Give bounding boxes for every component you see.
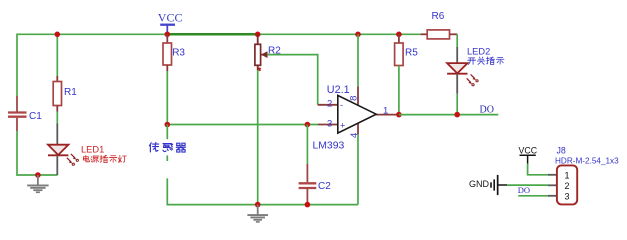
label LM393 [313,141,345,152]
wire R6 to LED2 [456,34,458,47]
svg-text:R6: R6 [432,11,445,22]
wire LED2 to DO rail [456,94,458,115]
pin number 2 [327,98,332,109]
label LED2 [467,46,490,56]
label 开关指示 [468,57,504,65]
svg-text:LED1: LED1 [81,145,104,155]
ground GND1 [27,175,48,193]
ground GND2 [247,205,268,223]
label U2.1 [327,84,350,96]
svg-text:1: 1 [383,105,388,116]
junction pin8 rail [355,32,361,38]
LED D2 pin cathode [456,74,458,94]
op-amp U2.1 LM393 [338,95,376,133]
junction R2 top [255,32,261,38]
wire VCC2 to J8 pin1 [528,164,548,175]
wire R3 bottom to node [166,71,168,125]
LED D1 pin cathode [56,155,58,175]
svg-text:LED2: LED2 [467,46,490,56]
wire DO rail [399,114,498,116]
capacitor C2 [299,164,332,205]
wire top rail left [17,34,167,96]
svg-text:C2: C2 [318,181,331,192]
op-amp U2.1 pin 4 stub [357,123,359,135]
svg-text:8: 8 [349,96,360,101]
svg-text:+: + [340,121,345,131]
svg-text:1: 1 [565,170,570,180]
svg-text:HDR-M-2.54_1x3: HDR-M-2.54_1x3 [555,157,619,166]
junction C2 bottom [305,202,311,208]
svg-text:J8: J8 [557,146,566,156]
label 电源指示灯 [83,155,126,162]
wire R1 from rail [56,34,58,76]
wire pin4 down [357,135,359,205]
net label DO bottom [518,185,530,195]
wire top rail right [258,33,421,35]
wire top rail dark segment VCC to R2 [167,33,257,36]
svg-text:LM393: LM393 [313,141,345,152]
svg-text:GND: GND [469,179,490,189]
svg-text:-: - [340,100,343,110]
resistor R5 [395,34,419,65]
LED D2 pin anode [456,47,458,63]
op-amp U2.1 pin 2 stub [318,104,338,106]
svg-text:DO: DO [518,185,530,195]
LED LED2 [447,63,478,86]
resistor R3 [163,34,185,71]
resistor R6 [421,11,458,39]
junction node C1/LED1/GND [35,172,41,178]
svg-text:C1: C1 [29,111,42,122]
label LED1 [81,145,104,155]
junction R5 top [396,32,402,38]
pin number 1 [383,105,388,116]
op-amp U2.1 pin 1 stub [376,114,399,116]
wire R5 bottom to output [398,66,400,115]
power GND symbol [469,175,507,195]
wire C2 top [306,125,308,165]
potentiometer R2 [255,34,281,71]
op-amp U2.1 pin 8 stub [357,87,359,107]
svg-text:2: 2 [565,181,570,191]
pin number 3 [327,118,332,129]
svg-text:VCC: VCC [519,146,538,156]
svg-text:2: 2 [327,98,332,109]
LED D1 pin anode [56,124,58,146]
wire DO to J8 pin3 [518,195,548,197]
svg-text:U2.1: U2.1 [327,84,350,96]
wire R2 bottom to ground rail [257,70,259,205]
wire R1 to LED1 [56,112,58,124]
label sensor 传感器 [147,139,191,155]
wire GND to J8 pin2 [507,184,548,186]
capacitor C1 [8,96,42,131]
wire sensor lower stub [167,178,358,204]
svg-text:3: 3 [565,191,570,201]
junction VCC rail [165,32,171,38]
svg-text:DO: DO [480,105,494,116]
junction R2 bottom ground [255,202,261,208]
op-amp U2.1 pin 3 stub [318,124,338,126]
resistor R1 [53,76,77,112]
label J8 [557,146,566,156]
connector J8 pin stubs [548,175,557,196]
wire R2 wiper to pin2 [267,55,318,105]
wire C1 to ground node [17,131,58,175]
junction LED2 bottom [454,112,460,118]
power VCC [158,11,183,35]
junction sensor node [165,122,171,128]
pin number 8 [349,96,360,101]
svg-text:VCC: VCC [158,11,183,25]
power VCC2 [519,146,538,164]
net label DO [480,105,494,116]
wire pin3 net [167,124,318,126]
svg-text:3: 3 [327,118,332,129]
svg-text:R1: R1 [64,87,77,98]
junction output node [396,112,402,118]
LED LED1 [48,145,78,166]
wire pin8 from rail [357,34,359,86]
svg-text:R3: R3 [172,48,185,59]
svg-text:R5: R5 [405,48,418,59]
pin number 4 [349,133,360,138]
wire sensor upper stub [166,125,168,162]
connector J8 HDR-M-2.54_1x3 [557,165,577,204]
label HDR-M-2.54_1x3 [555,157,619,166]
junction R1 top [55,32,61,38]
junction C2 top [305,122,311,128]
